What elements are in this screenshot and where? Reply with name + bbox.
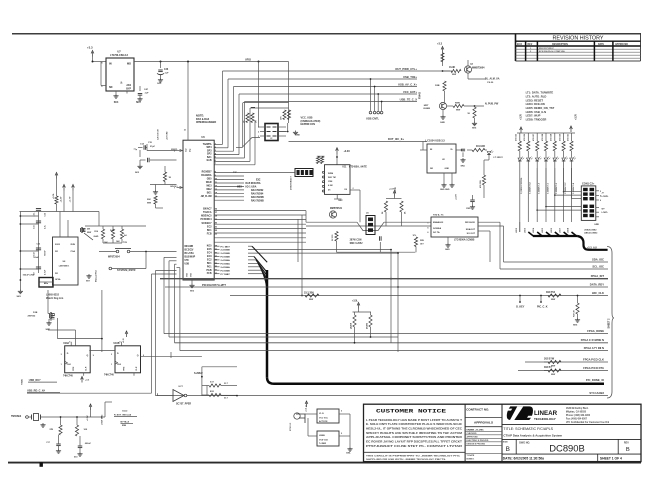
svg-text:BC-/U5A: BC-/U5A (185, 252, 195, 255)
svg-text:20K: 20K (147, 199, 151, 201)
svg-text:LM2709B 1: LM2709B 1 (59, 266, 70, 268)
svg-text:VCC VCC: VCC VCC (319, 418, 329, 420)
svg-text:10K: 10K (281, 116, 283, 120)
svg-text:GNL: GNL (346, 452, 351, 454)
svg-text:DK: DK (87, 229, 91, 231)
svg-text:U6: U6 (201, 135, 205, 139)
svg-text:U5B: U5B (185, 263, 190, 265)
svg-text:DATE: 6/02/2005 11:30:56a: DATE: 6/02/2005 11:30:56a (503, 456, 544, 460)
svg-text:SMC 6-2052: SMC 6-2052 (350, 243, 364, 245)
svg-text:FPGA_DONE: FPGA_DONE (587, 329, 604, 333)
svg-text:MMBT3531: MMBT3531 (330, 208, 343, 210)
svg-text:2N7002: 2N7002 (28, 316, 36, 318)
svg-text:APPLJCATSIAL CORPONET SURSTTUT: APPLJCATSIAL CORPONET SURSTTUTIOS AND PR… (366, 436, 462, 439)
svg-text:USB_TXE+: USB_TXE+ (403, 75, 417, 79)
svg-text:D1B: D1B (33, 312, 38, 314)
svg-text:W/O TM: W/O TM (328, 177, 336, 179)
svg-text:P/C_DONE_/O: P/C_DONE_/O (586, 378, 604, 382)
svg-text:5: 5 (120, 341, 121, 343)
svg-text:GNC: GNC (338, 200, 343, 202)
svg-text:ABC20-09E2: ABC20-09E2 (584, 232, 598, 235)
svg-text:GP3: GP3 (207, 150, 212, 152)
svg-text:MG2: MG2 (207, 189, 213, 191)
svg-text:5: 5 (69, 341, 70, 343)
svg-text:37B: 37B (49, 429, 53, 431)
svg-text:28?W CON: 28?W CON (350, 240, 362, 242)
svg-text:RDY/ACK: RDY/ACK (465, 221, 475, 224)
svg-text:EC3: EC3 (207, 256, 212, 258)
svg-text:MDT: MDT (424, 105, 429, 107)
svg-text:LED7: WUP: LED7: WUP (526, 114, 541, 118)
svg-text:20E20-09E2: 20E20-09E2 (584, 230, 597, 232)
svg-text:E3C: E3C (256, 180, 261, 182)
svg-text:GP0A: GP0A (55, 278, 61, 281)
svg-text:SK3: SK3 (114, 102, 119, 104)
svg-text:ECO: ECO (517, 44, 522, 46)
svg-text:MP3T2004: MP3T2004 (108, 256, 120, 259)
svg-text:KG5: KG5 (207, 246, 212, 248)
svg-text:301 E4B: 301 E4B (476, 145, 485, 148)
svg-text:N_PUB_PW: N_PUB_PW (485, 103, 499, 106)
svg-text:USB_AV_C_X+: USB_AV_C_X+ (398, 82, 417, 86)
svg-text:JM_FLUM: JM_FLUM (201, 196, 212, 198)
svg-text:2.4 1B6A: 2.4 1B6A (221, 259, 231, 262)
svg-text:GB5: GB5 (207, 179, 212, 181)
svg-text:475 E28: 475 E28 (541, 134, 544, 141)
svg-text:CLR: CLR (86, 366, 88, 371)
svg-text:14K: 14K (104, 241, 108, 244)
svg-text:SIZE: SIZE (503, 442, 508, 444)
svg-text:C6-I2: C6-I2 (122, 411, 128, 413)
svg-text:LED7: LED7 (560, 227, 562, 233)
svg-text:CUSTOMER NOTICE: CUSTOMER NOTICE (376, 407, 447, 414)
svg-text:+3.3V: +3.3V (61, 196, 63, 202)
svg-text:BX/AC7: BX/AC7 (203, 207, 212, 210)
svg-text:CT/AP Data Analysis & Acquisit: CT/AP Data Analysis & Acquisition System (503, 434, 562, 438)
svg-text:9WLOL1: 9WLOL1 (170, 186, 177, 188)
svg-text:C5M: C5M (328, 181, 333, 183)
svg-text:LED5: DEMO_ON_TST: LED5: DEMO_ON_TST (526, 106, 555, 110)
svg-text:C 5303KT -6: C 5303KT -6 (556, 183, 558, 194)
svg-text:.1uF: .1uF (164, 73, 169, 75)
svg-text:2: 2 (353, 188, 354, 190)
svg-text:O_KEY: O_KEY (516, 305, 525, 308)
svg-text:EC5: EC5 (207, 249, 212, 251)
svg-text:CONTRACT NO.: CONTRACT NO. (466, 408, 489, 412)
svg-text:14K: 14K (116, 240, 120, 243)
svg-text:LH3Y MHZ: LH3Y MHZ (102, 414, 104, 425)
svg-text:4.7uF: 4.7uF (44, 269, 47, 275)
svg-text:SYSTEM_RSTR: SYSTEM_RSTR (117, 269, 136, 272)
svg-text:C 5303KT -4: C 5303KT -4 (538, 182, 541, 194)
svg-text:RG0/EB7: RG0/EB7 (202, 172, 213, 174)
svg-text:TJOATE: TJOATE (467, 454, 475, 457)
svg-text:PC50/RC4: PC50/RC4 (201, 218, 213, 221)
svg-text:PIC_C_K: PIC_C_K (537, 305, 548, 308)
svg-text:SHEET 2: SHEET 2 (607, 318, 610, 329)
svg-text:475 E31: 475 E31 (566, 134, 569, 141)
svg-text:SHPPLJED FIR USE WJTH .JNEMR T: SHPPLJED FIR USE WJTH .JNEMR TECHVILIGY … (366, 459, 447, 461)
svg-text:D5B: D5B (435, 85, 440, 87)
svg-text:THIS CSRCLIT IS PSIPRSETPRY TO: THIS CSRCLIT IS PSIPRSETPRY TO .JNEMR TE… (366, 456, 461, 458)
svg-text:DL_ALM_UA: DL_ALM_UA (485, 78, 500, 81)
svg-text:Phone: (408) 432-1900: Phone: (408) 432-1900 (566, 414, 591, 417)
svg-text:+3.3: +3.3 (437, 42, 443, 46)
svg-text:6.3M: 6.3M (328, 185, 333, 187)
svg-text:SCK/EC7: SCK/EC7 (202, 223, 213, 225)
svg-text:BYP: BYP (126, 89, 131, 91)
svg-text:P.4 1B6B: P.4 1B6B (221, 269, 231, 272)
svg-text:74HC74U: 74HC74U (63, 375, 73, 378)
svg-text:U7: U7 (117, 49, 121, 53)
svg-text:SDAOUT: SDAOUT (466, 228, 476, 231)
svg-text:+3U GNZ: +3U GNZ (167, 131, 169, 140)
svg-text:CLK: CLK (67, 364, 72, 366)
svg-text:REV: REV (528, 44, 533, 46)
svg-text:TECHNOLOGY: TECHNOLOGY (534, 417, 557, 421)
svg-text:APPROVALS: APPROVALS (474, 420, 493, 424)
svg-text:P.7 1BB7: P.7 1BB7 (221, 274, 231, 276)
svg-text:ADJ: ADJ (126, 84, 131, 87)
svg-text:TXD A_TC: TXD A_TC (433, 214, 444, 217)
svg-text:+1.7V: +1.7V (70, 196, 72, 202)
svg-text:1: 1 (61, 364, 62, 366)
svg-text:ME3: ME3 (237, 187, 242, 189)
svg-text:.1uF: .1uF (144, 92, 149, 94)
svg-text:D4B: D4B (110, 229, 115, 232)
svg-text:C26 100 U3: C26 100 U3 (158, 128, 160, 140)
svg-text:FPGA A?Y INI N: FPGA A?Y INI N (584, 346, 604, 350)
svg-text:HESL2-UL. IT OPTAINS THE CLRCI: HESL2-UL. IT OPTAINS THE CLRCIMILB WHSCH… (366, 428, 462, 431)
svg-text:RG1/EBA: RG1/EBA (201, 174, 212, 177)
svg-text:LT 2530?: LT 2530? (494, 157, 504, 159)
svg-text:Manual Rst: Manual Rst (95, 270, 98, 282)
svg-text:93C_CLK: 93C_CLK (592, 291, 604, 295)
svg-text:FPGA_INT: FPGA_INT (591, 274, 605, 278)
svg-text:LED2: LED2 (516, 227, 518, 233)
svg-text:+3.3/: +3.3/ (123, 338, 125, 343)
svg-text:TCK: TCK (123, 242, 128, 244)
svg-text:USB_RX?: USB_RX? (29, 379, 41, 382)
svg-text:ACT/5YE: ACT/5YE (319, 420, 328, 423)
svg-text:BOMB 1: BOMB 1 (467, 458, 476, 460)
svg-text:+3.3_AU: +3.3_AU (587, 246, 597, 249)
svg-text:103uF-CND: 103uF-CND (23, 275, 35, 277)
svg-text:700nF: 700nF (45, 249, 47, 256)
svg-text:I/O 1 /U5A: I/O 1 /U5A (246, 186, 257, 189)
svg-text:2K 301: 2K 301 (332, 234, 334, 241)
svg-text:FPGA C R /WDE N: FPGA C R /WDE N (581, 338, 604, 342)
svg-text:EC4: EC4 (207, 252, 212, 255)
svg-text:B: B (506, 446, 510, 453)
svg-text:PGA: PGA (71, 250, 76, 253)
svg-text:MO: MO (127, 63, 131, 66)
svg-text:EEPRM CON: EEPRM CON (301, 123, 316, 126)
svg-text:FCB: FCB (207, 273, 212, 275)
svg-text:E5B: E5B (122, 425, 127, 427)
svg-text:APPROVED: APPROVED (467, 435, 479, 438)
svg-text:74HC74U: 74HC74U (104, 374, 114, 377)
svg-text:475 E25: 475 E25 (515, 134, 518, 141)
svg-text:RA8 78/26B: RA8 78/26B (251, 196, 264, 199)
svg-text:FPGA P/CO CLK: FPGA P/CO CLK (583, 357, 604, 361)
svg-text:SO OUT: SO OUT (467, 233, 476, 235)
svg-text:USB CNTL: USB CNTL (366, 117, 380, 121)
svg-text:CS-20: CS-20 (487, 82, 494, 84)
svg-text:BLB/WUP: BLB/WUP (185, 256, 196, 258)
svg-text:(B)1B4: (B)1B4 (366, 322, 369, 329)
svg-text:3: 3 (61, 354, 62, 356)
svg-text:USB_TE_C_X: USB_TE_C_X (400, 97, 418, 101)
svg-text:9?1D 0.5: 9?1D 0.5 (290, 422, 292, 431)
svg-text:CON1 C2+: CON1 C2+ (582, 182, 595, 185)
svg-text:GND: GND (445, 249, 450, 251)
svg-text:UC?: UC? (179, 386, 184, 388)
svg-text:16.9K: 16.9K (449, 67, 455, 69)
svg-text:LTC Confidential For Customer: LTC Confidential For Customer Use Onl (566, 421, 610, 424)
svg-text:MG3: MG3 (207, 186, 213, 188)
svg-text:+3.3V: +3.3V (521, 113, 523, 120)
svg-text:PRE: PRE (124, 366, 126, 371)
svg-text:Watch Dog Lim: Watch Dog Lim (46, 297, 63, 300)
svg-text:DATE: DATE (598, 43, 605, 46)
svg-text:LED3: LED3 (524, 227, 526, 233)
svg-text:PTSTJHWHCT CO.BE STET ITL. CON: PTSTJHWHCT CO.BE STET ITL. CONTACT LTVTA… (366, 445, 463, 448)
svg-text:EAB: EAB (207, 159, 212, 162)
svg-text:PIC16LF877A-I/PT: PIC16LF877A-I/PT (202, 283, 226, 287)
svg-text:APPROVED: APPROVED (615, 43, 628, 46)
svg-text:LED6: LED6 (551, 227, 553, 233)
svg-text:6: 6 (600, 200, 601, 202)
svg-text:WDM: WDM (328, 173, 333, 175)
svg-text:(A)45B: (A)45B (350, 322, 353, 329)
svg-text:VCE VCE: VCE VCE (319, 440, 328, 442)
svg-text:21: 21 (184, 130, 186, 132)
svg-text:F5443: F5443 (419, 92, 422, 99)
svg-text:B: B (626, 447, 630, 453)
svg-text:GAD: GAD (94, 235, 99, 238)
svg-text:2.4 1B6A: 2.4 1B6A (221, 266, 231, 269)
svg-text:UFIO: UFIO (245, 58, 251, 61)
svg-text:FCB: FCB (207, 234, 212, 236)
svg-text:RA3 78/262: RA3 78/262 (251, 189, 264, 192)
svg-text:U11: U11 (342, 167, 347, 169)
svg-text:LED3: RESET: LED3: RESET (526, 98, 544, 102)
svg-text:PROTOTYPE P: PROTOTYPE P (539, 48, 554, 50)
svg-text:CN5: CN5 (466, 208, 471, 210)
svg-text:DA5 RC3/U5A: DA5 RC3/U5A (246, 182, 261, 185)
svg-text:GND: GND (295, 135, 300, 137)
svg-text:302 P53: 302 P53 (546, 291, 556, 294)
svg-text:GND: GND (440, 122, 445, 124)
svg-text:J7B6/U5B/JCT: J7B6/U5B/JCT (291, 176, 293, 190)
svg-text:WW: WW (420, 240, 424, 242)
svg-text:O_RED3 C?RCOK-: O_RED3 C?RCOK- (521, 177, 523, 194)
svg-text:GP2: GP2 (207, 154, 212, 156)
svg-text:IN: IN (109, 63, 112, 66)
svg-text:REV: REV (624, 441, 629, 444)
svg-text:ENABLE2: ENABLE2 (433, 221, 444, 224)
svg-text:GND: GND (445, 168, 450, 170)
svg-text:10K: 10K (84, 429, 88, 431)
svg-text:LED8: TRIGGER: LED8: TRIGGER (526, 118, 547, 122)
svg-text:475 E30: 475 E30 (558, 134, 561, 141)
svg-text:Q: Q (86, 355, 88, 357)
svg-text:WGR: WGR (206, 182, 212, 184)
svg-text:C 5303KT -5: C 5303KT -5 (547, 183, 549, 194)
svg-text:+2.5V: +2.5V (87, 415, 89, 421)
svg-text:LTC4300A-1CM5B: LTC4300A-1CM5B (454, 239, 475, 242)
svg-text:MCLWR: MCLWR (185, 246, 194, 248)
svg-text:SO TA: SO TA (433, 231, 440, 234)
svg-text:DUT_I2C_E+: DUT_I2C_E+ (388, 137, 404, 141)
svg-text:700nF: 700nF (33, 257, 40, 259)
svg-text:TX/ACA: TX/ACA (203, 211, 212, 214)
svg-text:PG1: PG1 (207, 266, 212, 268)
svg-text:FT245B-L 94/TE: FT245B-L 94/TE (349, 166, 367, 169)
svg-text:FPGA P/CO DTA: FPGA P/CO DTA (583, 366, 604, 370)
svg-text:475 E29: 475 E29 (550, 134, 553, 141)
svg-text:LT2: AUTO_RLD: LT2: AUTO_RLD (526, 94, 547, 98)
svg-text:GPL: GPL (157, 83, 162, 85)
svg-text:SD: SD (430, 168, 433, 170)
svg-text:P.4 1B6B: P.4 1B6B (221, 256, 231, 259)
svg-text:+3.3V: +3.3V (389, 189, 395, 191)
svg-text:T+3MW: T+3MW (319, 443, 326, 445)
svg-text:DRAWN + B +REC: DRAWN + B +REC (467, 428, 485, 431)
svg-text:GRD: GRD (594, 224, 599, 226)
svg-text:LED8: LED8 (568, 227, 570, 233)
svg-text:T9441: T9441 (21, 378, 24, 385)
svg-text:2.4 1B6B: 2.4 1B6B (221, 249, 231, 252)
svg-text:BC2/C5/: BC2/C5/ (185, 249, 194, 251)
svg-text:P.C 1B6?: P.C 1B6? (221, 246, 231, 248)
svg-text:TM50SE3: TM50SE3 (11, 416, 22, 418)
svg-text:SCL_IOC: SCL_IOC (592, 264, 604, 268)
svg-text:VL N: VL N (319, 413, 324, 415)
svg-text:+3.3U: +3.3U (344, 150, 351, 153)
svg-text:U55: U55 (185, 260, 190, 262)
svg-text:VCC_EXT+: VCC_EXT+ (403, 90, 417, 94)
svg-text:USB_RD_C_X#: USB_RD_C_X# (27, 389, 46, 392)
svg-text:GND GND: GND GND (440, 189, 450, 191)
svg-text:WP4: WP4 (207, 146, 213, 149)
svg-text:1630 McCarthy Blvd.: 1630 McCarthy Blvd. (566, 407, 589, 410)
svg-text:2.4 1B6B: 2.4 1B6B (221, 252, 231, 255)
svg-text:L.TEAR TECHNOLOGY HAS MADE P B: L.TEAR TECHNOLOGY HAS MADE P BUST LFFIRT… (366, 419, 463, 422)
svg-text:C 5303KT C3: C 5303KT C3 (530, 182, 532, 194)
svg-text:SOMEA: SOMEA (433, 227, 441, 230)
svg-text:P.4 1B6A: P.4 1B6A (221, 263, 231, 266)
svg-text:DC890B: DC890B (549, 442, 584, 453)
svg-text:PGB: PGB (207, 270, 212, 272)
svg-text:LT1763-CS8-3.3: LT1763-CS8-3.3 (110, 54, 128, 57)
svg-text:LED4: LED4 (532, 227, 535, 233)
svg-text:TITLE: SCHEMATIC F/C/APLS: TITLE: SCHEMATIC F/C/APLS (503, 427, 553, 431)
svg-text:MMBT3904: MMBT3904 (472, 67, 485, 70)
svg-text:+3.3: +3.3 (87, 46, 93, 50)
svg-text:OUT_PWR_CTL+: OUT_PWR_CTL+ (395, 67, 417, 71)
svg-text:LED5: LED5 (542, 227, 544, 233)
svg-text:BC1: BC1 (207, 263, 212, 265)
svg-text:.082uF: .082uF (85, 443, 92, 445)
svg-text:+3.5L: +3.5L (352, 301, 359, 303)
svg-text:RA9 78/264: RA9 78/264 (251, 192, 264, 195)
svg-text:RUN: RUN (71, 244, 76, 246)
svg-text:TA/WPA: TA/WPA (203, 143, 212, 146)
svg-text:CLK: CLK (117, 364, 122, 366)
svg-text:1: 1 (111, 364, 112, 366)
svg-text:SDA_IOC: SDA_IOC (592, 257, 604, 261)
svg-text:EC2: EC2 (207, 259, 212, 261)
svg-text:33.2 2B6: 33.2 2B6 (304, 292, 314, 295)
svg-text:302 B?: 302 B? (544, 366, 552, 369)
svg-text:BC1: BC1 (207, 230, 212, 232)
svg-text:BA1: BA1 (207, 156, 212, 159)
svg-text:R_EXT_IN/CC2A: R_EXT_IN/CC2A (114, 413, 131, 416)
svg-text:2: 2 (258, 132, 259, 134)
svg-text:+3.3V: +3.3V (456, 194, 458, 200)
svg-text:SPECFY BUGHTS AVE SPLTHE.F IBF: SPECFY BUGHTS AVE SPLTHE.F IBFDATING TN … (366, 432, 462, 435)
svg-text:PRE: PRE (73, 366, 75, 371)
svg-text:27pF: 27pF (150, 146, 156, 148)
svg-text:2008M: 2008M (423, 108, 430, 110)
svg-text:SHEET 1 OF 4: SHEET 1 OF 4 (600, 456, 622, 460)
svg-text:WW: WW (147, 202, 151, 204)
svg-text:SD: SD (109, 86, 113, 89)
svg-text:C 5303KT -B: C 5303KT -B (573, 182, 575, 194)
svg-text:Q: Q (137, 355, 139, 357)
svg-text:CLR: CLR (136, 366, 138, 371)
svg-text:EC2: EC2 (207, 226, 212, 228)
svg-text:RA5 78/26B: RA5 78/26B (251, 199, 264, 202)
svg-text:302 B?W: 302 B?W (544, 357, 555, 360)
svg-text:475 E26: 475 E26 (523, 134, 526, 141)
svg-text:LED6: USB_G.N: LED6: USB_G.N (526, 110, 547, 114)
svg-text:Fax: (408) 434-0507: Fax: (408) 434-0507 (566, 418, 588, 421)
svg-text:SC?ST_PPER: SC?ST_PPER (176, 404, 191, 406)
svg-text:EC ROVER JAYNG LAYIUT RFP DSCS: EC ROVER JAYNG LAYIUT RFP DSCSPTLES.PLL … (366, 441, 463, 444)
svg-text:+3.3V: +3.3V (576, 113, 578, 120)
svg-text:LCMPL: LCMPL (602, 196, 610, 198)
svg-text:C 5303KT C7: C 5303KT C7 (565, 182, 567, 194)
svg-text:BG1: BG1 (207, 193, 212, 195)
svg-text:DESCRIPTION: DESCRIPTION (552, 44, 568, 46)
svg-text:LED4: DCE-ON: LED4: DCE-ON (526, 102, 545, 106)
svg-text:DATA_RDY: DATA_RDY (590, 282, 604, 286)
svg-text:478 12B: 478 12B (479, 180, 482, 188)
svg-text:SK3: SK3 (136, 102, 141, 104)
svg-text:Milpitas, CA 95035: Milpitas, CA 95035 (566, 411, 587, 414)
svg-text:C12: C12 (186, 149, 188, 152)
svg-text:INTERCHANGED: INTERCHANGED (196, 121, 216, 124)
svg-text:ECN 308-514 & COMP VAL: ECN 308-514 & COMP VAL (539, 50, 566, 53)
svg-text:LMNH: LMNH (319, 435, 325, 437)
svg-text:R4? 2K: R4? 2K (573, 310, 576, 317)
svg-text:MDE/AC5: MDE/AC5 (201, 215, 212, 218)
svg-text:SY3 1ACB2: SY3 1ACB2 (589, 391, 604, 395)
svg-text:3: 3 (111, 354, 112, 356)
svg-text:L C1054 USB 3.3: L C1054 USB 3.3 (425, 139, 445, 142)
svg-text:LC4PL: LC4PL (602, 211, 609, 214)
svg-text:475 E27: 475 E27 (532, 134, 535, 141)
svg-text:9: 9 (93, 355, 94, 357)
svg-text:E. SOLE ONTI TLATE CONSTRICTED: E. SOLE ONTI TLATE CONSTRICTED PLALE S W… (366, 423, 462, 426)
svg-text:C46: C46 (164, 68, 169, 71)
svg-text:DWG NO.: DWG NO. (519, 441, 530, 444)
svg-text:LT1: DATA_TX/WRITE: LT1: DATA_TX/WRITE (526, 91, 554, 95)
